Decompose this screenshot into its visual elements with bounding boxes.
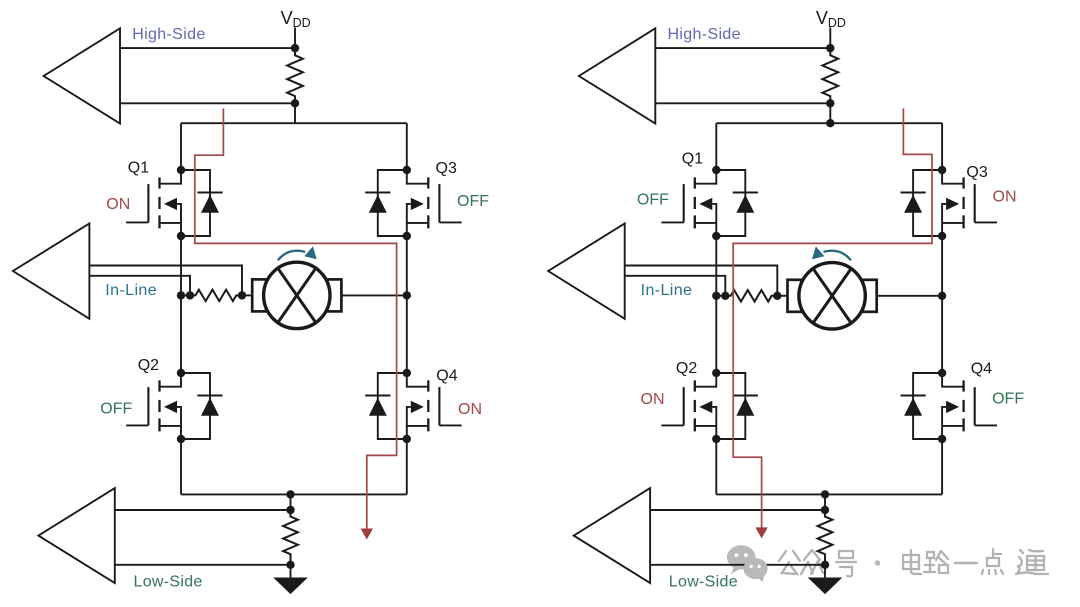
node dot top rail center (right) (826, 119, 834, 127)
transistor Q1 (right) body diode (716, 170, 758, 236)
transistor Q2 (right) body diode (716, 373, 758, 439)
watermark text 号 (836, 551, 856, 576)
node dot low-side resistor top (left) (286, 506, 294, 514)
wire bottom rail to resistor (left) (290, 494, 292, 510)
node dot shunt left (right) (721, 292, 729, 300)
svg-text:ON: ON (641, 391, 665, 408)
wire shunt to motor (left) (242, 294, 253, 296)
transistor Q4 (right) drain node dot (938, 369, 946, 377)
in-line sense wire bottom (left) (89, 276, 190, 296)
in-line current-sense amplifier probe triangle (left) (13, 224, 90, 319)
current path arrowhead (right) (755, 527, 767, 538)
svg-text:OFF: OFF (457, 193, 489, 210)
node dot VDD top (left) (291, 44, 299, 52)
svg-text:Q3: Q3 (436, 160, 457, 177)
left rail upper wire (left) (180, 123, 182, 170)
node dot shunt right (right) (773, 292, 781, 300)
in-line current-sense amplifier probe triangle (right) (548, 224, 625, 319)
wire rail to shunt (left) (181, 294, 190, 296)
transistor Q2 (left) drain node dot (177, 369, 185, 377)
node dot shunt left (left) (186, 291, 194, 299)
motor M (left) brushes (252, 279, 266, 311)
wire shunt to motor (right) (777, 295, 788, 297)
high-side shunt resistor (left) (287, 48, 303, 103)
in-line sense wire bottom (right) (625, 276, 726, 296)
bottom rail wire (right) (716, 493, 942, 495)
svg-text:Q1: Q1 (682, 150, 703, 167)
high-side current-sense amplifier probe triangle (left) (44, 28, 120, 123)
high-side sense wire top (right) (655, 47, 830, 49)
svg-text:High-Side: High-Side (132, 26, 205, 43)
right rail upper wire (left) (406, 123, 408, 170)
transistor Q1 (left) source node dot (177, 232, 185, 240)
transistor Q3 (left) body (407, 170, 462, 236)
low-side sense wire top (left) (115, 509, 291, 511)
in-line sense wire top (left) (89, 266, 242, 296)
transistor Q2 (right) drain node dot (712, 369, 720, 377)
transistor Q1 (left) body diode (181, 170, 223, 236)
transistor Q1 (left) drain node dot (177, 166, 185, 174)
watermark text 电 (903, 550, 921, 574)
low-side sense wire bottom (right) (650, 564, 825, 566)
transistor Q3 (right) source node dot (938, 232, 946, 240)
rotation direction arrow (left) (278, 251, 305, 261)
low-side shunt resistor (right) (818, 510, 833, 565)
right rail upper wire (right) (941, 123, 943, 170)
node dot motor right rail (right) (938, 292, 946, 300)
VDD supply (left) lead wire (294, 28, 296, 49)
high-side sense wire bottom (left) (120, 102, 295, 104)
right rail wire motor row to Q3.source (right) (941, 236, 943, 296)
svg-text:ON: ON (993, 189, 1017, 206)
bottom rail wire (left) (181, 493, 407, 495)
transistor Q1 (right) body (661, 170, 716, 236)
current path (right) (733, 108, 932, 527)
node dot shunt right (left) (238, 291, 246, 299)
svg-text:ON: ON (106, 196, 130, 213)
motor M (right) brushes (788, 280, 802, 312)
low-side sense wire bottom (left) (115, 564, 291, 566)
top rail wire (right) (716, 122, 942, 124)
node dot motor right rail (left) (403, 291, 411, 299)
transistor Q3 (left) source node dot (403, 232, 411, 240)
left rail upper wire (right) (715, 123, 717, 170)
transistor Q1 (right) source node dot (712, 232, 720, 240)
transistor Q4 (right) body diode (901, 373, 943, 439)
svg-text:Q1: Q1 (128, 159, 149, 176)
svg-text:OFF: OFF (992, 391, 1024, 408)
node dot rail shunt row (right) (712, 292, 720, 300)
node dot low-side resistor bottom (left) (286, 561, 294, 569)
VDD supply (right) lead wire (829, 28, 831, 49)
watermark logo big chat bubble (727, 545, 756, 574)
wire bottom rail to resistor (right) (824, 494, 826, 510)
transistor Q2 (left) body diode (181, 373, 223, 439)
transistor Q4 (left) drain node dot (403, 369, 411, 377)
wire motor to right rail (right) (876, 295, 942, 297)
watermark text 点 (982, 549, 1003, 574)
right rail wire Q4.drain to motor row (right) (941, 296, 943, 373)
watermark text separator dot (875, 560, 881, 566)
svg-text:Q4: Q4 (971, 361, 992, 378)
right rail wire Q4.drain to motor row (left) (406, 295, 408, 373)
low-side current-sense amplifier probe triangle (right) (574, 488, 650, 583)
node dot below high-side resistor (right) (826, 99, 834, 107)
left rail wire shunt row to Q2.drain (right) (715, 296, 717, 373)
watermark text 一 (955, 562, 977, 564)
high-side sense wire top (left) (120, 47, 295, 49)
wire resistor to top rail (right) (829, 103, 831, 123)
in-line shunt resistor (right) (725, 290, 777, 301)
node dot low-side resistor top (right) (821, 506, 829, 514)
transistor Q2 (left) body (126, 373, 181, 439)
transistor Q4 (left) body (407, 373, 462, 439)
svg-text:High-Side: High-Side (668, 26, 741, 43)
svg-text:Low-Side: Low-Side (669, 574, 738, 591)
svg-text:OFF: OFF (637, 191, 669, 208)
node dot low-side resistor bottom (right) (821, 561, 829, 569)
svg-text:Low-Side: Low-Side (134, 574, 203, 591)
transistor Q2 (left) source node dot (177, 435, 185, 443)
low-side shunt resistor (left) (283, 510, 298, 565)
right rail lower wire bottom rail to Q4.source (right) (941, 439, 943, 494)
top rail wire (left) (181, 122, 407, 124)
transistor Q1 (left) body (126, 170, 181, 236)
high-side current-sense amplifier probe triangle (right) (579, 28, 655, 123)
motor M (left) X rotor (278, 268, 316, 322)
node dot below high-side resistor (left) (291, 99, 299, 107)
watermark text 公 (779, 551, 800, 574)
in-line shunt resistor (left) (190, 290, 242, 301)
transistor Q3 (right) drain node dot (938, 166, 946, 174)
motor M (right) circle (799, 263, 865, 329)
transistor Q3 (left) drain node dot (403, 166, 411, 174)
ground symbol (right) (808, 565, 843, 594)
transistor Q4 (left) source node dot (403, 435, 411, 443)
rotation direction arrow (right) (824, 251, 851, 261)
svg-text:ON: ON (458, 401, 482, 418)
left rail mid wire Q1.source to shunt row (left) (180, 236, 182, 295)
watermark text 路 (924, 551, 948, 573)
node dot VDD top (right) (826, 44, 834, 52)
svg-text:Q4: Q4 (436, 367, 457, 384)
transistor Q3 (left) body diode (365, 170, 407, 236)
high-side sense wire bottom (right) (655, 102, 830, 104)
watermark text 通 (1016, 550, 1048, 574)
transistor Q4 (left) body diode (365, 373, 407, 439)
right rail wire motor row to Q3.source (left) (406, 236, 408, 295)
transistor Q1 (right) drain node dot (712, 166, 720, 174)
left rail lower wire Q2.source to bottom rail (left) (180, 439, 182, 494)
transistor Q4 (right) source node dot (938, 435, 946, 443)
svg-text:In-Line: In-Line (105, 282, 157, 299)
node dot bottom rail (right) (821, 490, 829, 498)
left rail lower wire Q2.source to bottom rail (right) (715, 439, 717, 494)
low-side current-sense amplifier probe triangle (left) (38, 488, 114, 583)
high-side shunt resistor (right) (822, 48, 838, 103)
motor M (right) X rotor (813, 269, 851, 323)
ground symbol (left) (273, 565, 308, 594)
svg-text:In-Line: In-Line (641, 282, 693, 299)
watermark text 众 (801, 550, 823, 574)
svg-text:Q2: Q2 (676, 360, 697, 377)
left rail wire shunt row to Q2.drain (left) (180, 295, 182, 373)
current path (left) (195, 108, 397, 528)
wire rail to shunt (right) (716, 295, 725, 297)
transistor Q3 (right) body diode (901, 170, 943, 236)
transistor Q4 (right) body (942, 373, 997, 439)
in-line sense wire top (right) (625, 266, 778, 296)
wire motor to right rail (left) (341, 294, 407, 296)
current path arrowhead (left) (361, 529, 373, 540)
node dot rail shunt row (left) (177, 291, 185, 299)
transistor Q3 (right) body (942, 170, 997, 236)
transistor Q2 (right) body (661, 373, 716, 439)
watermark logo small chat bubble (744, 558, 768, 582)
motor M (left) circle (264, 262, 330, 328)
right rail lower wire bottom rail to Q4.source (left) (406, 439, 408, 494)
wire resistor to top rail (left) (294, 103, 296, 123)
transistor Q2 (right) source node dot (712, 435, 720, 443)
svg-text:OFF: OFF (100, 401, 132, 418)
svg-text:Q2: Q2 (138, 357, 159, 374)
left rail mid wire Q1.source to shunt row (right) (715, 236, 717, 296)
node dot bottom rail (left) (286, 490, 294, 498)
svg-text:Q3: Q3 (966, 164, 987, 181)
low-side sense wire top (right) (650, 509, 825, 511)
